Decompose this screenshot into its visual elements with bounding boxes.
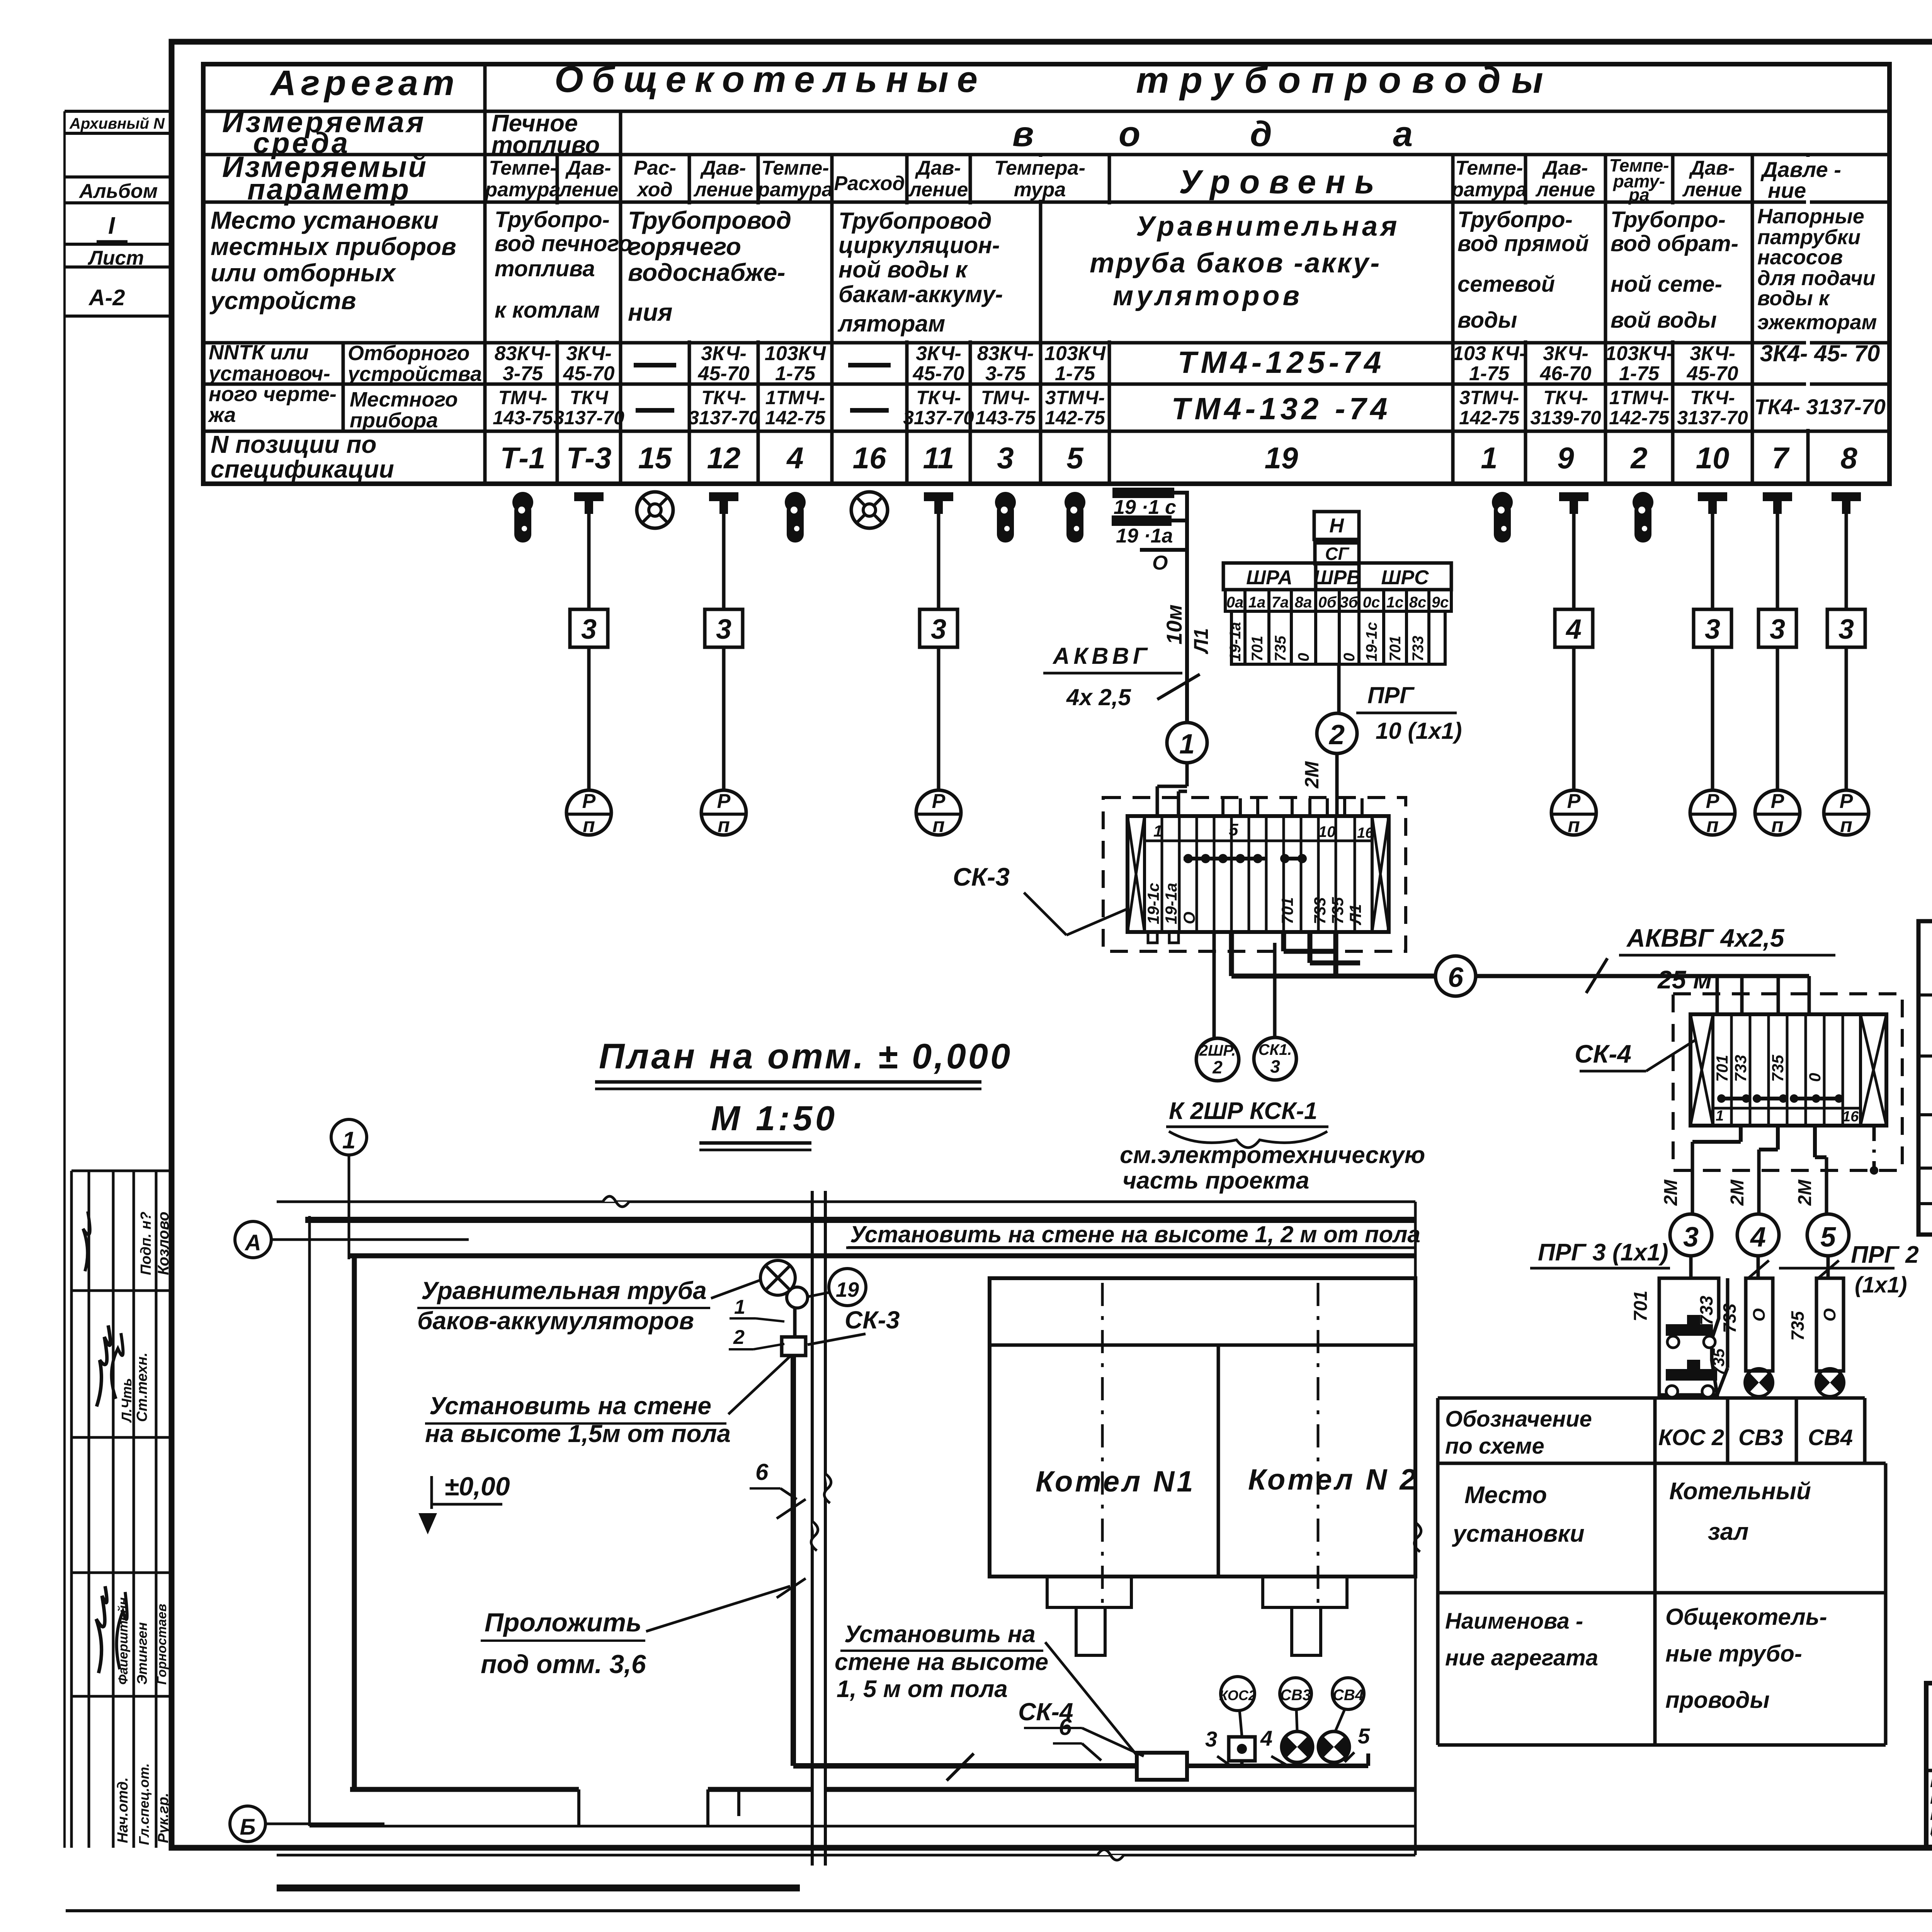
svg-text:735: 735 (1709, 1348, 1728, 1376)
svg-text:стене на высоте: стене на высоте (835, 1649, 1048, 1675)
svg-text:(1х1): (1х1) (1855, 1272, 1907, 1298)
svg-text:под отм. 3,6: под отм. 3,6 (481, 1650, 646, 1679)
svg-text:Подп. н?: Подп. н? (138, 1211, 154, 1275)
svg-text:Этинген: Этинген (134, 1622, 150, 1685)
valve symbol SV4 on plan (1318, 1724, 1370, 1766)
svg-text:К 2ШР КСК-1: К 2ШР КСК-1 (1169, 1098, 1317, 1124)
sensor symbol pressure tap pos 11 (924, 492, 953, 514)
svg-text:Горностаев: Горностаев (155, 1604, 169, 1685)
svg-text:Т-3: Т-3 (566, 441, 612, 475)
svg-text:0: 0 (1806, 1073, 1824, 1082)
designation table (1438, 1398, 1886, 1745)
svg-text:баков-аккумуляторов: баков-аккумуляторов (417, 1307, 694, 1335)
svg-text:1ТМЧ-: 1ТМЧ- (1609, 387, 1669, 408)
svg-text:по схеме: по схеме (1445, 1434, 1544, 1459)
instrument connection table grid (203, 64, 1889, 484)
svg-text:733: 733 (1696, 1296, 1716, 1325)
svg-text:СК-3: СК-3 (953, 862, 1010, 891)
svg-text:701: 701 (1713, 1055, 1731, 1082)
svg-text:83КЧ-: 83КЧ- (977, 342, 1034, 365)
wire and local gauge P/n pos 10 (1690, 514, 1735, 837)
cross-connect strip ShRA ShRV ShRS (1190, 563, 1451, 664)
svg-text:ТМ4-132 -74: ТМ4-132 -74 (1172, 391, 1391, 426)
svg-text:циркуляцион-: циркуляцион- (838, 232, 1000, 258)
svg-text:103КЧ: 103КЧ (1044, 342, 1106, 365)
svg-text:Отборного: Отборного (348, 342, 469, 365)
svg-text:16: 16 (1357, 825, 1374, 841)
svg-text:735: 735 (1328, 897, 1347, 924)
svg-text:Установить на: Установить на (844, 1621, 1036, 1648)
svg-text:ра: ра (1628, 185, 1650, 205)
svg-text:вод обрат-: вод обрат- (1611, 231, 1738, 256)
svg-text:Топливо-печное бытовое: Топливо-печное бытовое (1930, 1832, 1932, 1849)
svg-text:3137-70: 3137-70 (553, 407, 624, 429)
svg-text:8с: 8с (1409, 594, 1427, 611)
svg-text:2: 2 (1212, 1057, 1223, 1077)
svg-text:733: 733 (1731, 1055, 1750, 1082)
instrument SV3 solenoid valve (1719, 1278, 1773, 1396)
svg-text:Нач.отд.: Нач.отд. (115, 1777, 131, 1843)
svg-text:сетевой: сетевой (1458, 272, 1555, 297)
svg-text:3: 3 (1838, 614, 1854, 645)
svg-text:83КЧ-: 83КЧ- (495, 342, 551, 365)
svg-text:25 м: 25 м (1657, 965, 1712, 994)
wire and local gauge P/n pos 8 (1824, 514, 1869, 837)
svg-text:4: 4 (786, 441, 803, 475)
svg-text:3К4- 45- 70: 3К4- 45- 70 (1760, 340, 1880, 366)
svg-text:ляторам: ляторам (837, 311, 945, 337)
SK-3 box on plan (782, 1306, 900, 1355)
svg-text:7: 7 (1772, 441, 1790, 475)
svg-text:вой воды: вой воды (1611, 308, 1717, 333)
svg-text:топливо: топливо (492, 132, 600, 158)
svg-text:45-70: 45-70 (563, 362, 615, 385)
svg-text:1-75: 1-75 (775, 362, 816, 385)
svg-text:ТК4- 3137-70: ТК4- 3137-70 (1754, 395, 1886, 419)
boiler 1 pedestal (1047, 1577, 1131, 1655)
junction box SK-4 dashed enclosure (1673, 994, 1902, 1170)
plan title (595, 1037, 1012, 1150)
plan left wall (310, 1216, 354, 1826)
svg-text:1: 1 (1481, 441, 1497, 475)
svg-text:Рас-: Рас- (634, 157, 676, 179)
svg-text:1-75: 1-75 (1469, 362, 1510, 385)
svg-text:3КЧ-: 3КЧ- (1543, 342, 1588, 365)
axis circle B (230, 1806, 384, 1842)
SK-3 label with leader (953, 862, 1128, 935)
svg-text:Р: Р (932, 790, 946, 813)
svg-text:5: 5 (1820, 1222, 1836, 1253)
svg-text:15: 15 (638, 441, 672, 475)
level sensor 0 terminal line (1140, 550, 1187, 574)
svg-text:СВ4: СВ4 (1333, 1687, 1364, 1704)
note install on wall 1.5m upper (425, 1356, 790, 1447)
sensor symbol thermometer pocket pos 3 (995, 492, 1016, 543)
table row G position numbers (211, 430, 1857, 483)
sensor symbol thermometer pocket pos 4 (785, 492, 806, 543)
plan wall text band (846, 1221, 1420, 1248)
svg-text:Темпе-: Темпе- (1455, 157, 1523, 179)
svg-text:1: 1 (1179, 729, 1195, 760)
svg-text:О: О (1750, 1308, 1769, 1321)
connector circle 2ShR-2 (1196, 1038, 1239, 1081)
svg-text:зал: зал (1708, 1519, 1748, 1545)
svg-text:ратура: ратура (1451, 179, 1527, 201)
svg-text:3: 3 (716, 614, 731, 645)
device circle SV4 on plan (1332, 1678, 1364, 1731)
svg-text:45-70: 45-70 (913, 362, 964, 385)
sheet bottom rule (66, 1909, 1932, 1912)
svg-text:2М: 2М (1301, 761, 1323, 789)
svg-text:ление: ление (908, 179, 968, 201)
svg-text:М 1:50: М 1:50 (711, 1099, 838, 1138)
sensor symbol pressure tap T-3 (574, 492, 604, 514)
svg-text:4: 4 (1750, 1222, 1766, 1253)
svg-text:АКВВГ: АКВВГ (1052, 643, 1151, 669)
sensor symbol thermometer pocket T-1 (512, 492, 533, 543)
svg-text:КОС2: КОС2 (1219, 1687, 1256, 1703)
table rows E F left labels (207, 341, 482, 432)
table header texts row A (270, 59, 1554, 103)
svg-text:эжекторам: эжекторам (1757, 311, 1877, 334)
svg-text:СВ3: СВ3 (1738, 1425, 1783, 1450)
svg-text:вод прямой: вод прямой (1458, 231, 1589, 256)
svg-text:Т-1: Т-1 (500, 441, 546, 475)
table header texts row B (222, 106, 1413, 160)
sensor symbol pressure tap pos 10 (1698, 492, 1727, 514)
wires from SK-3 down to plugs (1214, 932, 1275, 1039)
note lay under elevation 3.6 (481, 1578, 806, 1679)
svg-text:ТМЧ-: ТМЧ- (981, 387, 1030, 408)
svg-text:19: 19 (1265, 441, 1298, 475)
svg-text:ния: ния (628, 298, 672, 326)
svg-text:ратура: ратура (757, 179, 833, 201)
svg-text:1с: 1с (1386, 594, 1404, 611)
note equalizer pipe text (417, 1277, 761, 1335)
svg-text:Гл.спец.от.: Гл.спец.от. (136, 1763, 152, 1845)
svg-text:Установить на стене: Установить на стене (429, 1392, 711, 1420)
wires from SK-4 bottom to cable markers (1661, 1126, 1878, 1214)
junction box SK-3 terminal block (1128, 816, 1389, 943)
device circle SV3 on plan (1280, 1678, 1311, 1731)
table row D cells (209, 205, 1877, 337)
svg-text:ПРГ 3 (1х1): ПРГ 3 (1х1) (1538, 1239, 1668, 1266)
valve symbol SV3 on plan (1260, 1726, 1313, 1766)
svg-text:1-75: 1-75 (1619, 362, 1660, 385)
svg-text:Р: Р (717, 790, 731, 813)
svg-text:ТКЧ-: ТКЧ- (916, 387, 961, 408)
svg-text:142-75: 142-75 (1459, 407, 1520, 429)
svg-text:ление: ление (558, 179, 619, 201)
svg-text:Дав-: Дав- (1542, 157, 1588, 179)
valve position symbol 3 on plan (1205, 1727, 1255, 1766)
svg-text:трубопроводы: трубопроводы (1136, 60, 1554, 101)
plan middle wall double line (811, 1191, 831, 1866)
svg-text:3КЧ-: 3КЧ- (1690, 342, 1735, 365)
svg-text:1: 1 (1716, 1108, 1724, 1124)
wire and local gauge P/n pos 7 (1755, 514, 1800, 837)
svg-text:Котельная с 4 водогрейными: Котельная с 4 водогрейными (1930, 1772, 1932, 1791)
svg-text:0: 0 (1341, 653, 1358, 662)
svg-text:Котел N1: Котел N1 (1036, 1465, 1196, 1498)
svg-text:Уровень: Уровень (1179, 163, 1384, 201)
sensor symbol pressure tap pos 7 (1763, 492, 1792, 514)
svg-text:701: 701 (1631, 1291, 1651, 1321)
svg-text:3: 3 (1270, 1056, 1280, 1077)
svg-text:СК-3: СК-3 (845, 1306, 900, 1334)
svg-text:Р: Р (1840, 790, 1853, 813)
svg-text:воды к: воды к (1757, 287, 1830, 310)
svg-text:3КЧ-: 3КЧ- (916, 342, 961, 365)
svg-text:ление: ление (1535, 179, 1595, 201)
svg-text:Ст.техн.: Ст.техн. (134, 1352, 150, 1422)
svg-text:спецификации: спецификации (211, 455, 394, 483)
svg-text:0: 0 (1295, 653, 1312, 662)
level sensor 19-1a terminal bar (1112, 515, 1187, 547)
svg-text:3139-70: 3139-70 (1530, 407, 1601, 429)
left sidebar stamp column (65, 111, 172, 1848)
svg-text:Л1: Л1 (1190, 628, 1213, 655)
svg-text:3-75: 3-75 (985, 362, 1026, 385)
SK-4 label with leader (1575, 1039, 1696, 1071)
svg-text:Б: Б (240, 1815, 255, 1840)
svg-text:О: О (1820, 1308, 1839, 1321)
svg-text:установоч-: установоч- (207, 362, 330, 385)
svg-text:насосов: насосов (1757, 246, 1843, 269)
note install on wall 1.5m lower (835, 1621, 1136, 1754)
svg-text:ПРГ 2: ПРГ 2 (1851, 1242, 1919, 1268)
svg-text:5: 5 (1358, 1724, 1370, 1748)
svg-text:или отборных: или отборных (211, 259, 396, 287)
svg-text:ТКЧ: ТКЧ (570, 387, 609, 408)
svg-text:6: 6 (1059, 1714, 1072, 1740)
svg-text:п: п (1771, 814, 1784, 837)
wire and local gauge P/n pos T-3 (566, 514, 611, 837)
svg-text:10м: 10м (1162, 604, 1186, 645)
svg-text:ление: ление (1682, 179, 1742, 201)
svg-text:ТКЧ-: ТКЧ- (701, 387, 746, 408)
svg-text:труба баков -акку-: труба баков -акку- (1090, 248, 1381, 279)
title block org cell (1930, 1689, 1932, 1849)
svg-text:19: 19 (836, 1278, 859, 1301)
svg-text:19-1а: 19-1а (1227, 622, 1244, 662)
svg-text:Обозначение: Обозначение (1445, 1406, 1592, 1432)
panel box SG (1315, 543, 1359, 564)
svg-text:А: А (244, 1230, 261, 1255)
boiler block outline (990, 1278, 1418, 1611)
svg-text:10: 10 (1696, 441, 1730, 475)
svg-text:Уравнительная: Уравнительная (1136, 211, 1400, 242)
svg-text:1: 1 (1153, 822, 1162, 840)
sensor symbol flow element pos 15 (637, 492, 673, 528)
equalizer pipe symbol on plan (760, 1260, 808, 1337)
svg-text:Трубопровод: Трубопровод (628, 206, 791, 234)
svg-text:О: О (1180, 912, 1198, 924)
svg-text:9с: 9с (1432, 594, 1449, 611)
svg-text:ТКЧ-: ТКЧ- (1690, 387, 1735, 408)
svg-text:п: п (1706, 814, 1719, 837)
svg-text:701: 701 (1387, 636, 1404, 662)
svg-text:СК1.: СК1. (1259, 1041, 1292, 1058)
svg-text:Л1: Л1 (1346, 904, 1364, 925)
svg-text:Местного: Местного (350, 388, 458, 411)
svg-text:Место установки: Место установки (211, 206, 439, 234)
svg-text:Трубопровод: Трубопровод (838, 208, 992, 234)
cable marker circle 1 (1167, 723, 1207, 786)
wires from bus into SK-4 top (1717, 976, 1809, 1014)
svg-text:3: 3 (997, 441, 1014, 475)
panel box N (1314, 512, 1359, 539)
svg-text:Дав-: Дав- (915, 157, 961, 179)
svg-text:Архивный N: Архивный N (69, 115, 165, 132)
wire and local gauge P/n pos 12 (701, 514, 746, 837)
svg-text:о: о (1119, 114, 1140, 154)
left sidebar signature table (71, 1171, 172, 1848)
axis circle 1 (331, 1119, 367, 1259)
svg-text:2: 2 (733, 1326, 745, 1349)
sensor symbol pressure tap pos 12 (709, 492, 738, 514)
svg-text:ШРС: ШРС (1381, 566, 1429, 589)
svg-text:установки: установки (1452, 1520, 1585, 1547)
svg-text:19-1с: 19-1с (1363, 622, 1380, 662)
svg-text:142-75: 142-75 (1045, 407, 1105, 429)
cable marker circle 5 (1807, 1214, 1849, 1279)
svg-text:КОС 2: КОС 2 (1658, 1425, 1724, 1450)
cable marker circle 6 and bus to SK-4 (1435, 923, 1835, 996)
svg-text:Н: Н (1329, 515, 1344, 537)
table header texts row C (222, 151, 1841, 206)
svg-text:Общекотель-: Общекотель- (1665, 1604, 1827, 1630)
elevation mark 0.00 (418, 1472, 510, 1534)
svg-text:Напорные: Напорные (1757, 205, 1864, 228)
table rows E F values (493, 340, 1886, 429)
svg-text:3ТМЧ-: 3ТМЧ- (1045, 387, 1105, 408)
svg-text:3-75: 3-75 (503, 362, 543, 385)
svg-text:ного черте-: ного черте- (209, 383, 337, 406)
svg-text:п: п (932, 814, 945, 837)
svg-text:142-75: 142-75 (1609, 407, 1670, 429)
svg-text:5: 5 (1229, 820, 1238, 839)
svg-text:в: в (1012, 114, 1034, 154)
svg-text:ной воды к: ной воды к (838, 257, 968, 282)
boiler 2 pedestal (1263, 1577, 1347, 1655)
cable label PRG3(1x1) (1530, 1239, 1670, 1268)
svg-text:водоснабже-: водоснабже- (628, 259, 785, 286)
svg-text:Темпера-: Темпера- (994, 157, 1085, 179)
svg-text:103КЧ: 103КЧ (765, 342, 826, 365)
svg-text:3КЧ-: 3КЧ- (701, 342, 747, 365)
cable 6 vertical run on plan (750, 1355, 1137, 1766)
svg-text:СВ3: СВ3 (1280, 1687, 1311, 1704)
svg-text:2: 2 (1328, 719, 1345, 750)
svg-text:3: 3 (1683, 1222, 1699, 1253)
svg-text:Темпе-: Темпе- (761, 157, 829, 179)
svg-text:ШРА: ШРА (1246, 566, 1293, 589)
svg-text:жа: жа (207, 403, 236, 427)
wire stubs on SK-3 top (1223, 798, 1362, 816)
SK-4 box on plan (1018, 1698, 1187, 1780)
svg-text:19 ·1 с: 19 ·1 с (1114, 496, 1176, 519)
svg-text:Трубопро-: Трубопро- (1458, 207, 1573, 232)
specification table (1918, 921, 1932, 1237)
svg-text:п: п (1840, 814, 1852, 837)
svg-text:Файерштейн: Файерштейн (116, 1597, 131, 1685)
svg-text:п: п (1568, 814, 1580, 837)
svg-text:3137-70: 3137-70 (1677, 407, 1748, 429)
svg-text:735: 735 (1769, 1054, 1787, 1082)
svg-text:4: 4 (1565, 614, 1582, 645)
svg-text:Проложить: Проложить (485, 1608, 641, 1637)
svg-text:Трубопро-: Трубопро- (1611, 207, 1726, 232)
svg-text:19 ·1а: 19 ·1а (1116, 525, 1173, 547)
svg-text:АКВВГ 4х2,5: АКВВГ 4х2,5 (1626, 923, 1785, 952)
axis circle A (235, 1221, 469, 1258)
svg-text:ные трубо-: ные трубо- (1665, 1641, 1802, 1667)
svg-text:12: 12 (707, 441, 741, 475)
svg-text:на высоте 1,5м от пола: на высоте 1,5м от пола (425, 1420, 731, 1447)
wire from ShRV down to junction 2 (1337, 664, 1341, 713)
svg-text:0б: 0б (1318, 594, 1337, 611)
svg-text:прибора: прибора (350, 409, 438, 432)
svg-text:N позиции по: N позиции по (211, 430, 376, 458)
title block frame (1926, 1683, 1932, 1847)
svg-text:3137-70: 3137-70 (688, 407, 759, 429)
svg-text:Р: Р (582, 790, 596, 813)
svg-text:1ТМЧ-: 1ТМЧ- (765, 387, 825, 408)
svg-text:142-75: 142-75 (765, 407, 826, 429)
svg-text:патрубки: патрубки (1757, 226, 1861, 249)
svg-text:см.электротехническую: см.электротехническую (1120, 1142, 1425, 1168)
svg-text:701: 701 (1278, 897, 1296, 924)
svg-text:Уравнительная труба: Уравнительная труба (421, 1277, 707, 1304)
position circle 19 on plan (808, 1269, 866, 1306)
svg-text:а: а (1393, 114, 1413, 154)
svg-text:вод печного: вод печного (495, 231, 632, 256)
svg-text:Трубопро-: Трубопро- (495, 207, 610, 232)
svg-text:Наименова -: Наименова - (1445, 1609, 1583, 1634)
svg-text:10: 10 (1318, 823, 1336, 840)
plan bottom heavy rule (277, 1884, 800, 1891)
svg-text:19-1с: 19-1с (1144, 883, 1162, 924)
svg-text:2: 2 (1630, 441, 1647, 475)
cable label AKVVG 4x2.5 (1043, 643, 1182, 710)
svg-text:4: 4 (1260, 1726, 1272, 1750)
svg-text:Альбом: Альбом (78, 180, 158, 202)
svg-text:701: 701 (1249, 636, 1266, 662)
svg-text:О: О (1152, 552, 1168, 574)
svg-text:3ТМЧ-: 3ТМЧ- (1459, 387, 1519, 408)
svg-text:1: 1 (342, 1127, 355, 1154)
sensor symbol thermometer pocket pos 5 (1065, 492, 1085, 543)
note K 2ShR KSK-1 (1120, 1098, 1425, 1194)
svg-text:Установить на стене на высо: Установить на стене на высоте 1, 2 м от … (850, 1221, 1420, 1247)
svg-text:5: 5 (1066, 441, 1084, 475)
cable label PRG2(1x1) (1779, 1242, 1919, 1298)
svg-text:д: д (1250, 114, 1272, 154)
svg-text:1: 1 (734, 1296, 745, 1318)
plan inner wall top (350, 1253, 1415, 1259)
svg-text:ТКЧ-: ТКЧ- (1543, 387, 1588, 408)
svg-text:6: 6 (755, 1459, 769, 1485)
instrument SV4 solenoid valve (1787, 1278, 1844, 1396)
svg-text:143-75: 143-75 (493, 407, 553, 429)
svg-text:ление: ление (693, 179, 753, 201)
svg-text:устройств: устройств (209, 287, 356, 315)
cable label PRG 10(1x1) (1356, 682, 1462, 744)
svg-text:143-75: 143-75 (975, 407, 1036, 429)
svg-text:733: 733 (1311, 897, 1329, 924)
svg-text:2М: 2М (1795, 1179, 1815, 1206)
